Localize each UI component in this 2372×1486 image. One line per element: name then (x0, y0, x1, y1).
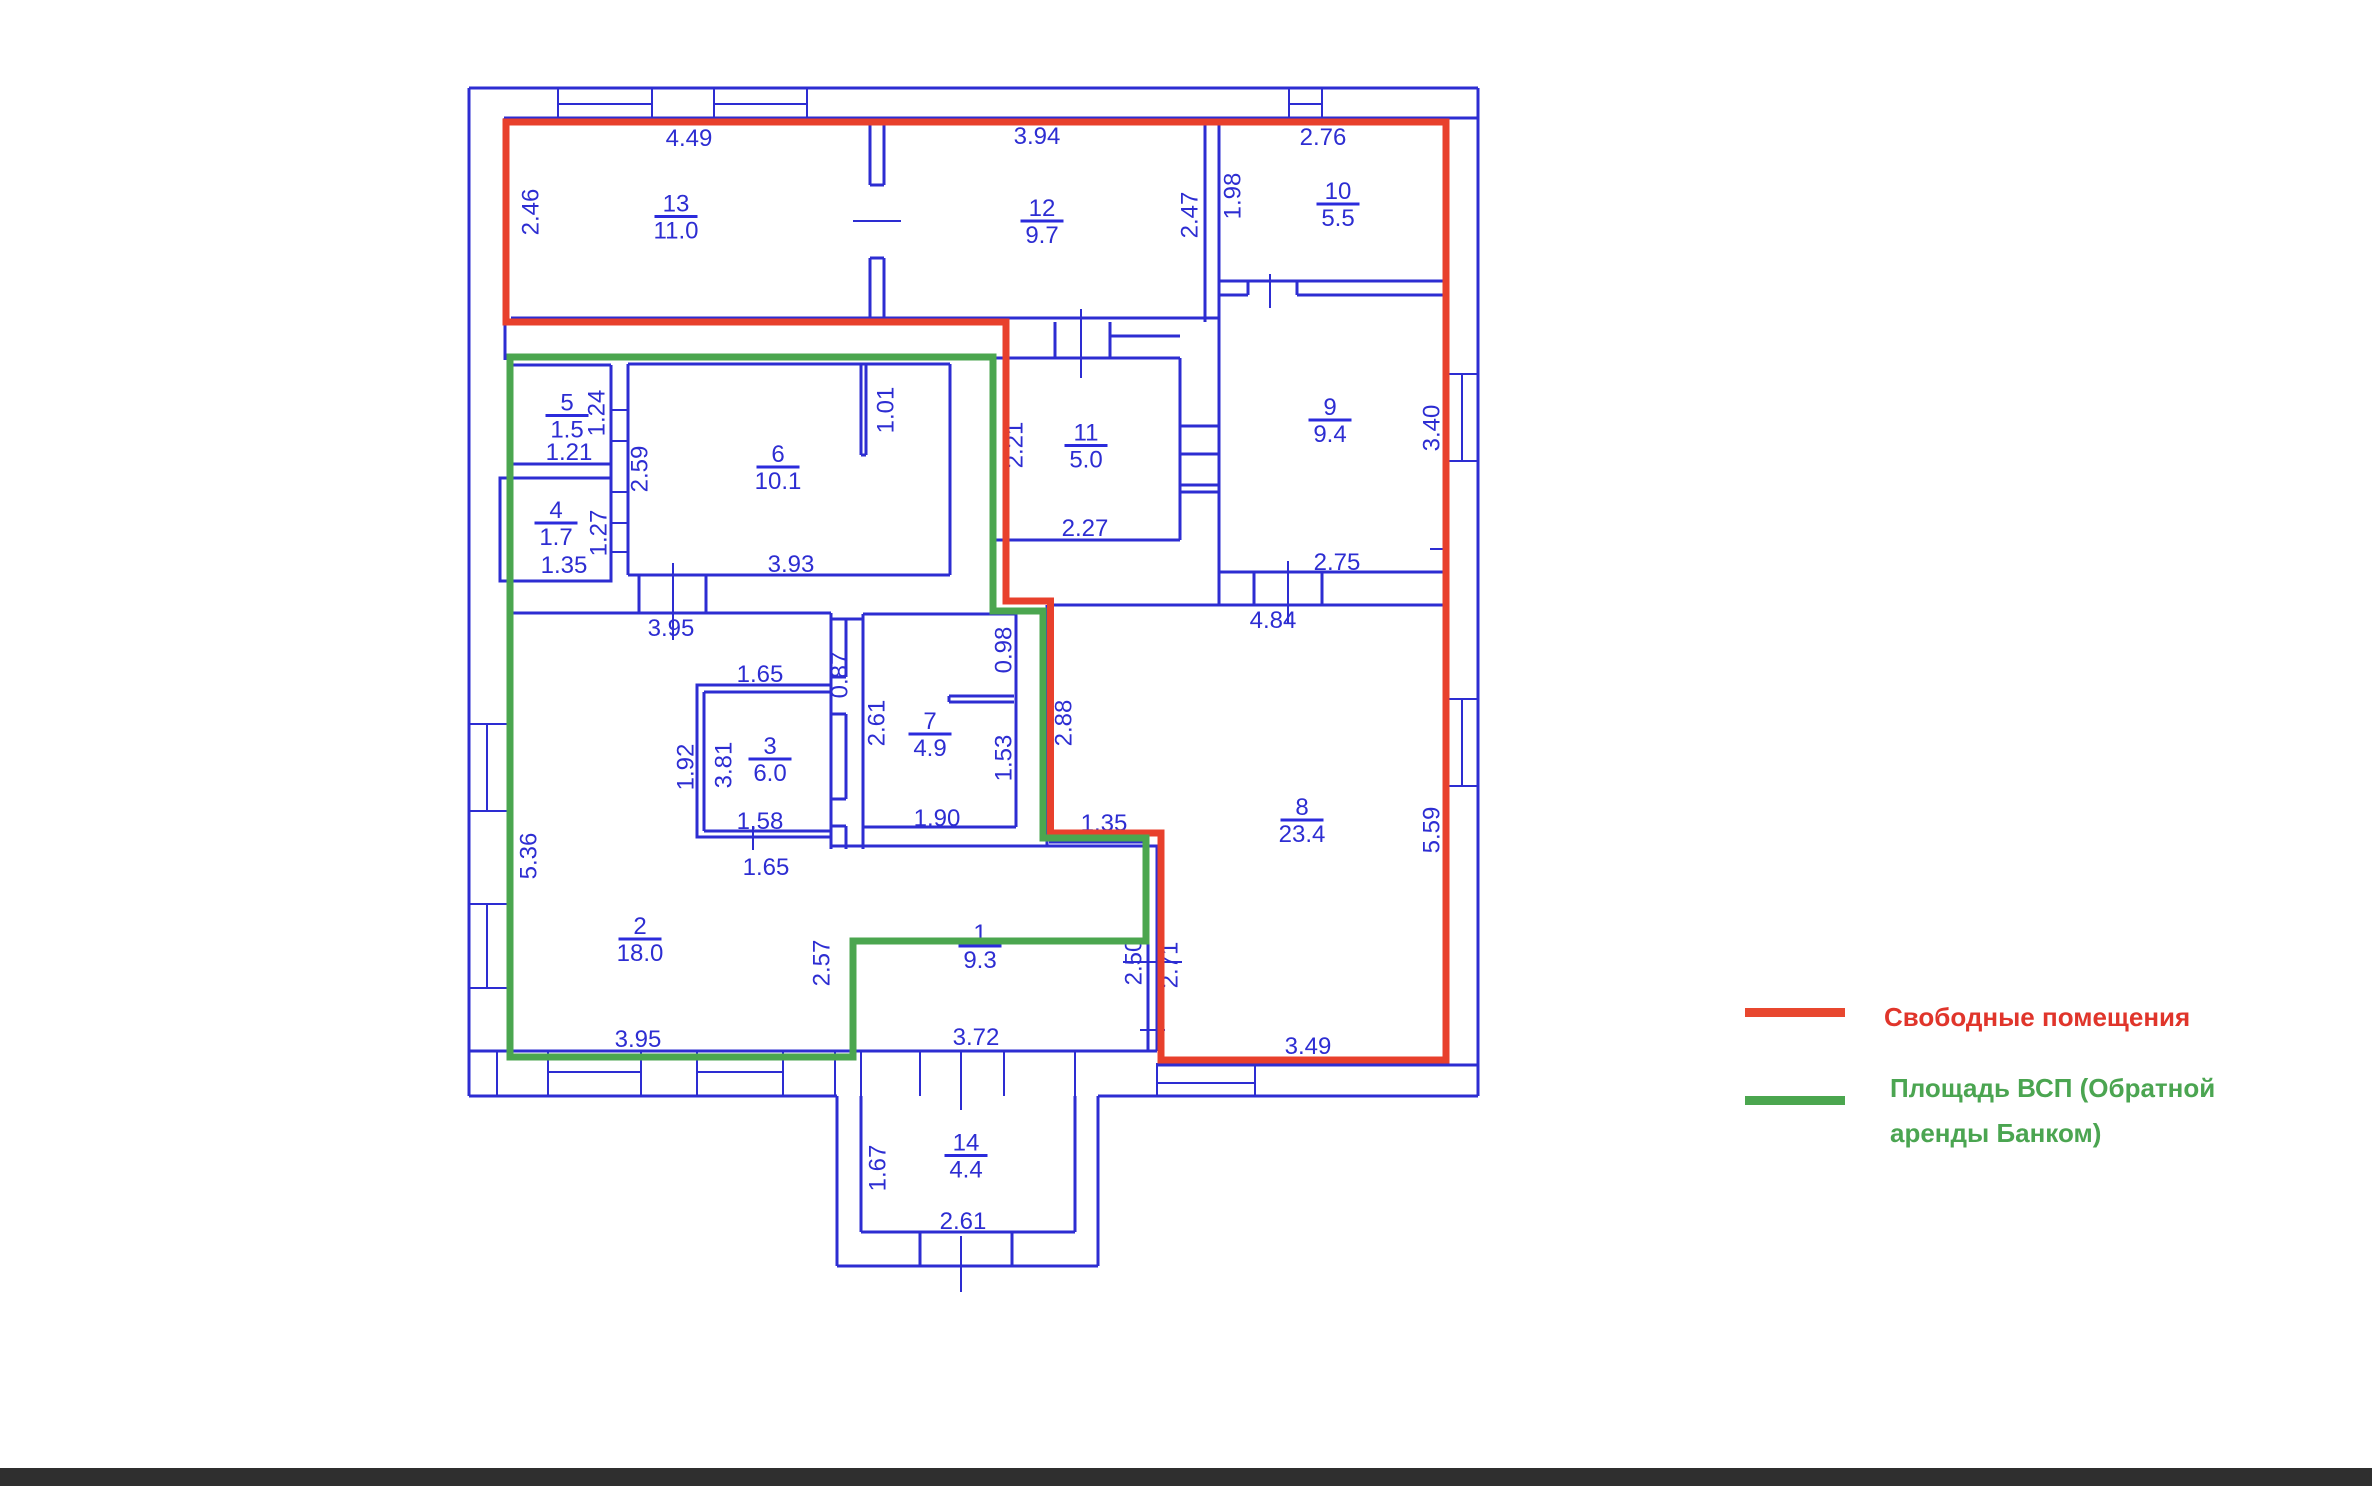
room 9 label bar (1309, 419, 1352, 422)
svg-text:Площадь ВСП (Обратной: Площадь ВСП (Обратной (1890, 1073, 2215, 1103)
svg-text:3.94: 3.94 (1014, 123, 1061, 150)
room 10 label bar (1317, 203, 1360, 206)
porch outer bottom (837, 1265, 1098, 1268)
svg-text:14: 14 (953, 1130, 980, 1157)
svg-text:4: 4 (549, 497, 562, 524)
room 3 label bar (749, 758, 792, 761)
legend red line (1745, 1008, 1845, 1017)
room 9 bottom wall (1219, 571, 1448, 574)
right window 2 (1448, 698, 1478, 700)
legend green line (1745, 1096, 1845, 1105)
svg-text:1.67: 1.67 (865, 1145, 892, 1192)
room 9 door caps (1253, 572, 1256, 605)
bottom window 1 (547, 1051, 549, 1096)
svg-text:5: 5 (560, 390, 573, 417)
svg-text:5.36: 5.36 (516, 833, 543, 880)
svg-text:3.49: 3.49 (1285, 1033, 1332, 1060)
dim tick room 2 top door (672, 563, 674, 640)
red outline free premises (506, 122, 1446, 1060)
svg-text:3: 3 (763, 733, 776, 760)
svg-text:4.49: 4.49 (666, 125, 713, 152)
svg-text:2.61: 2.61 (864, 700, 891, 747)
svg-text:1.27: 1.27 (586, 510, 613, 557)
room 7 label bar (909, 733, 952, 736)
svg-text:3.93: 3.93 (768, 551, 815, 578)
svg-text:1.98: 1.98 (1220, 173, 1247, 220)
svg-text:1.90: 1.90 (914, 805, 961, 832)
svg-text:0.87: 0.87 (827, 652, 854, 699)
svg-text:7: 7 (923, 708, 936, 735)
dim tick room 14 (960, 1051, 962, 1110)
svg-text:2: 2 (633, 913, 646, 940)
top window 2 (713, 88, 715, 118)
svg-text:1.58: 1.58 (737, 808, 784, 835)
svg-text:1.53: 1.53 (991, 735, 1018, 782)
svg-text:2.50: 2.50 (1121, 939, 1148, 986)
outer wall bottom right (1098, 1095, 1478, 1098)
room 7 shelf (949, 695, 1014, 698)
wall rooms 13/12 bottom (511, 317, 1219, 320)
room 3 box inner (704, 691, 831, 694)
svg-text:3.95: 3.95 (648, 615, 695, 642)
porch outer right (1097, 1096, 1100, 1266)
svg-text:Свободные помещения: Свободные помещения (1884, 1002, 2190, 1032)
svg-text:9.4: 9.4 (1313, 421, 1346, 448)
wall rooms 12/10 (1204, 124, 1207, 322)
room 14 label bar (945, 1154, 988, 1157)
wall under red jog (1046, 605, 1049, 846)
room 5 box (512, 364, 611, 367)
svg-text:2.76: 2.76 (1300, 124, 1347, 151)
porch outer left (836, 1096, 839, 1266)
inner wall bottom (469, 1050, 1157, 1053)
room 8 top wall (1054, 604, 1448, 607)
svg-text:аренды Банком): аренды Банком) (1890, 1118, 2101, 1148)
room 8 label bar (1281, 819, 1324, 822)
outer wall right (1477, 88, 1480, 1096)
wall band rooms 3/7 (830, 613, 833, 849)
svg-text:1.35: 1.35 (541, 552, 588, 579)
svg-text:13: 13 (663, 191, 690, 218)
door thresholds rooms 11/9 (1180, 425, 1219, 428)
svg-text:3.72: 3.72 (953, 1024, 1000, 1051)
svg-text:1.01: 1.01 (873, 387, 900, 434)
room 13 label bar (655, 215, 698, 218)
svg-text:2.27: 2.27 (1062, 515, 1109, 542)
green outline bank area (510, 357, 1146, 1057)
room 14 door caps (919, 1232, 922, 1266)
room 11 label bar (1065, 444, 1108, 447)
svg-text:2.88: 2.88 (1051, 700, 1078, 747)
inner wall top (504, 117, 1478, 120)
svg-text:5.59: 5.59 (1419, 807, 1446, 854)
dim tick door 13/12 (853, 220, 901, 222)
room 6 label bar (757, 466, 800, 469)
svg-text:3.81: 3.81 (711, 742, 738, 789)
svg-text:5.5: 5.5 (1321, 205, 1354, 232)
bottom window 2 (696, 1051, 698, 1096)
svg-text:9: 9 (1323, 394, 1336, 421)
room 3 box outer (697, 685, 831, 837)
bottom dark bar (0, 1468, 2372, 1486)
svg-text:12: 12 (1029, 195, 1056, 222)
svg-text:10.1: 10.1 (755, 468, 802, 495)
room 6 stub wall (860, 364, 863, 455)
svg-text:4.9: 4.9 (913, 735, 946, 762)
svg-text:9.3: 9.3 (963, 947, 996, 974)
svg-text:1.7: 1.7 (539, 524, 572, 551)
svg-text:11.0: 11.0 (654, 218, 699, 245)
svg-text:1.92: 1.92 (673, 744, 700, 791)
room 7 walls (863, 613, 1016, 616)
ticks rooms 5/4 right (611, 409, 628, 411)
svg-text:4.84: 4.84 (1250, 607, 1297, 634)
svg-text:1.65: 1.65 (737, 661, 784, 688)
outer wall bottom left (469, 1095, 837, 1098)
left window 2 (469, 903, 508, 905)
dim tick room 3 bottom (752, 826, 754, 850)
room 1 label bar (959, 945, 1002, 948)
svg-text:10: 10 (1325, 178, 1352, 205)
inner wall right (1447, 118, 1450, 1051)
svg-text:2.75: 2.75 (1314, 549, 1361, 576)
svg-text:9.7: 9.7 (1025, 222, 1058, 249)
room 2 label bar (619, 938, 662, 941)
top window 1 (557, 88, 559, 118)
svg-text:2.59: 2.59 (627, 446, 654, 493)
room 4 label bar (535, 522, 578, 525)
room 12 label bar (1021, 220, 1064, 223)
outer wall left (468, 88, 471, 1096)
room 4 box (500, 478, 611, 581)
room 6 walls (628, 363, 950, 366)
svg-text:6.0: 6.0 (753, 760, 786, 787)
room 12 door caps (1054, 322, 1057, 358)
svg-text:23.4: 23.4 (1279, 821, 1326, 848)
dim tick room 12 door (1080, 309, 1082, 378)
bottom wall ticks (496, 1051, 498, 1096)
svg-text:1.65: 1.65 (743, 854, 790, 881)
corridor wall room1 top (831, 845, 1161, 848)
tick right wall (1430, 548, 1443, 550)
wall rooms 13/12 (869, 124, 872, 185)
dim tick room 10 door (1269, 274, 1271, 308)
wall rooms 10/9 (1219, 280, 1448, 283)
top window 3 (1288, 88, 1290, 118)
svg-text:2.47: 2.47 (1177, 192, 1204, 239)
svg-text:5.0: 5.0 (1069, 447, 1102, 474)
svg-text:3.95: 3.95 (615, 1026, 662, 1053)
svg-text:8: 8 (1295, 794, 1308, 821)
svg-text:1.24: 1.24 (584, 390, 611, 437)
wall room2 top (512, 612, 831, 615)
room 1 right wall (1147, 846, 1150, 1051)
room 11 walls (994, 357, 1180, 360)
room 14 inner walls (860, 1096, 863, 1232)
bottom right window band (1156, 1063, 1158, 1096)
svg-text:2.57: 2.57 (809, 940, 836, 987)
room 5 label bar (546, 414, 589, 417)
outer wall top (469, 87, 1478, 90)
dim tick room 9 door (1287, 561, 1289, 624)
svg-text:2.46: 2.46 (518, 189, 545, 236)
room2 top door caps (638, 575, 641, 613)
svg-text:1.21: 1.21 (546, 439, 593, 466)
svg-text:3.40: 3.40 (1419, 405, 1446, 452)
svg-text:18.0: 18.0 (617, 940, 664, 967)
svg-text:6: 6 (771, 441, 784, 468)
left window 1 (469, 723, 508, 725)
inner wall left (504, 118, 507, 360)
svg-text:0.98: 0.98 (991, 627, 1018, 674)
right window 1 (1448, 373, 1478, 375)
svg-text:2.61: 2.61 (940, 1208, 987, 1235)
svg-text:4.4: 4.4 (949, 1157, 982, 1184)
dim tick room 1 right (1123, 961, 1182, 963)
svg-text:11: 11 (1074, 420, 1099, 447)
